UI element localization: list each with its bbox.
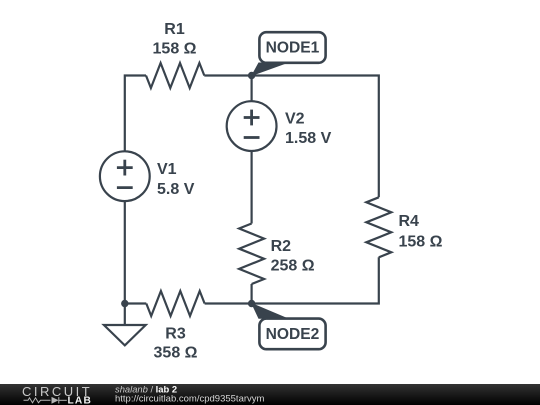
wire R2 to NODE2 <box>251 284 253 304</box>
svg-text:R3: R3 <box>165 325 186 342</box>
V2 plus sign <box>244 110 260 126</box>
svg-text:LAB: LAB <box>68 396 93 405</box>
wire top-left to R1 <box>125 76 146 152</box>
node NODE1 junction dot <box>248 72 255 79</box>
V2 minus sign <box>244 136 260 139</box>
svg-text:R1: R1 <box>164 21 185 38</box>
ground stub wire <box>124 304 126 326</box>
resistor R4 <box>366 197 391 257</box>
footer bar <box>0 384 540 405</box>
wire ground junction to R3 <box>125 302 147 304</box>
svg-text:158 Ω: 158 Ω <box>399 233 443 250</box>
ground junction dot <box>121 300 128 307</box>
V1 minus sign <box>117 186 133 189</box>
node NODE2 junction dot <box>248 300 255 307</box>
svg-text:http://circuitlab.com/cpd9355t: http://circuitlab.com/cpd9355tarvym <box>115 393 265 404</box>
CircuitLab logo diode triangle <box>52 397 59 404</box>
svg-text:V2: V2 <box>285 111 305 128</box>
wire R4 to bottom-right corner <box>205 257 379 303</box>
V1 plus sign <box>117 160 133 176</box>
svg-text:5.8 V: 5.8 V <box>157 181 195 198</box>
resistor R2 <box>239 224 264 285</box>
ground symbol <box>104 325 146 345</box>
CircuitLab logo resistor squiggle and diode <box>24 397 67 403</box>
NODE2 flag box <box>259 319 325 350</box>
svg-text:158 Ω: 158 Ω <box>153 40 197 57</box>
wire V1 bottom lead <box>124 201 126 303</box>
svg-text:258 Ω: 258 Ω <box>271 257 315 274</box>
svg-text:1.58 V: 1.58 V <box>285 130 332 147</box>
svg-text:NODE2: NODE2 <box>266 326 320 343</box>
wire NODE1 to V2 <box>251 76 253 102</box>
wire V2 to R2 <box>251 151 253 224</box>
svg-text:R2: R2 <box>271 238 292 255</box>
wire R1 to top-right corner <box>204 76 378 198</box>
resistor R1 <box>146 63 204 88</box>
NODE1 flag pointer wedge <box>251 63 289 77</box>
svg-text:NODE1: NODE1 <box>266 40 320 57</box>
resistor R3 <box>146 291 204 316</box>
voltage source V2 <box>227 101 277 151</box>
svg-text:V1: V1 <box>157 161 177 178</box>
NODE2 flag pointer wedge <box>251 303 289 319</box>
svg-text:358 Ω: 358 Ω <box>154 345 198 362</box>
NODE1 flag box <box>259 32 325 63</box>
voltage source V1 <box>100 151 150 201</box>
svg-text:R4: R4 <box>399 213 420 230</box>
